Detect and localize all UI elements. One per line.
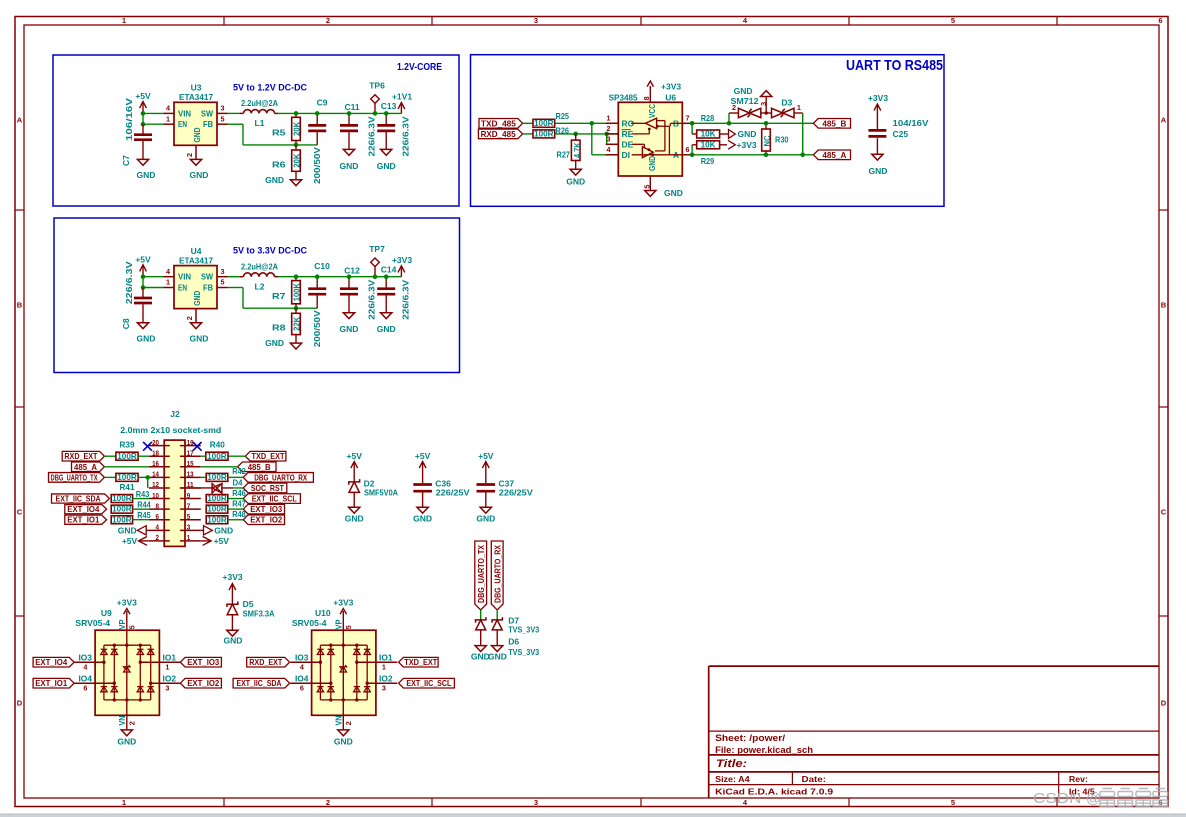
svg-text:1: 1: [797, 103, 801, 112]
svg-text:C10: C10: [314, 261, 330, 271]
svg-text:GND: GND: [224, 636, 243, 646]
U6 internal wiring: [657, 120, 665, 122]
U6 pin 6 A: [682, 154, 695, 156]
svg-text:3: 3: [759, 102, 768, 106]
svg-text:B: B: [17, 301, 23, 310]
svg-text:GND: GND: [566, 177, 585, 187]
svg-text:RXD_EXT: RXD_EXT: [249, 658, 282, 667]
wire: [228, 508, 243, 510]
svg-text:B: B: [1161, 301, 1167, 310]
svg-text:1: 1: [122, 16, 126, 25]
wire: [201, 476, 206, 478]
svg-text:VN: VN: [333, 716, 343, 726]
junction: [141, 122, 146, 127]
resistor R45: [111, 516, 132, 524]
svg-text:5: 5: [221, 114, 225, 123]
J2 pin 1: [180, 540, 201, 542]
global label EXT_IO1: [65, 515, 107, 524]
ground: [290, 343, 301, 349]
graphic box 1.2V-CORE region: [53, 55, 459, 206]
svg-text:EXT_IO3: EXT_IO3: [250, 505, 282, 514]
svg-text:Rev:: Rev:: [1069, 774, 1088, 784]
svg-text:100R: 100R: [534, 119, 554, 128]
svg-text:200/50V: 200/50V: [312, 310, 322, 347]
svg-text:D: D: [17, 699, 23, 708]
junction: [141, 274, 146, 279]
wire pin14 to pin12: [147, 477, 149, 488]
svg-text:12: 12: [152, 480, 159, 489]
svg-text:R6: R6: [272, 159, 286, 169]
svg-text:IO1: IO1: [379, 653, 393, 663]
svg-text:1: 1: [382, 662, 386, 671]
svg-text:2: 2: [344, 721, 353, 725]
J2 pin 11: [180, 487, 201, 489]
svg-text:GND: GND: [340, 161, 359, 171]
wire: [104, 466, 148, 468]
svg-text:10K: 10K: [701, 130, 716, 139]
svg-text:D4: D4: [233, 477, 243, 487]
svg-text:SRV05-4: SRV05-4: [292, 618, 327, 628]
junction: [384, 111, 389, 116]
global label SOC_RST: [243, 483, 287, 493]
ground: [349, 507, 360, 513]
svg-text:1: 1: [166, 278, 170, 287]
power +5V (D2): [353, 463, 355, 483]
svg-text:EXT_IO3: EXT_IO3: [187, 658, 219, 667]
svg-text:+3V3: +3V3: [661, 82, 681, 92]
svg-text:1: 1: [165, 662, 169, 671]
svg-text:GND: GND: [647, 156, 657, 171]
svg-text:106/16V: 106/16V: [124, 98, 134, 141]
power label +5V (pin 2): [139, 537, 148, 546]
U6 pin 7 B: [682, 122, 695, 124]
svg-text:5: 5: [344, 625, 353, 629]
resistor R30 NC: [765, 123, 767, 129]
svg-text:100R: 100R: [117, 452, 137, 461]
svg-text:EXT_IO1: EXT_IO1: [35, 679, 67, 688]
svg-text:6: 6: [83, 683, 87, 692]
wire: [228, 498, 243, 500]
wire: [104, 476, 116, 478]
J2 pin 20: [149, 445, 170, 447]
svg-text:GND: GND: [377, 161, 396, 171]
svg-text:R30: R30: [775, 135, 789, 145]
op-amp U6 SP3485 transceiver body: [618, 102, 682, 176]
test point TP7: [371, 258, 380, 267]
wire: [228, 519, 243, 521]
svg-text:@: @: [1086, 791, 1101, 807]
global label EXT_IO2 (U9): [180, 678, 221, 688]
svg-text:R5: R5: [272, 128, 286, 138]
svg-text:R7: R7: [272, 291, 286, 301]
ground: [290, 180, 301, 186]
svg-text:5V to 1.2V DC-DC: 5V to 1.2V DC-DC: [233, 82, 307, 92]
svg-text:100R: 100R: [112, 515, 132, 524]
global label DBG_UARTO_TX: [49, 473, 105, 483]
svg-text:18: 18: [152, 448, 159, 457]
svg-text:100R: 100R: [112, 494, 132, 503]
U3 pin 3 SW: [217, 112, 228, 114]
svg-text:4: 4: [166, 267, 170, 276]
global label GND (R28): [720, 133, 729, 135]
svg-text:2: 2: [127, 721, 136, 725]
svg-text:GND: GND: [192, 128, 202, 143]
J2 pin 17: [180, 455, 201, 457]
svg-text:J2: J2: [170, 409, 180, 419]
resistor R26: [533, 130, 555, 138]
U9 pin 4 IO3: [74, 661, 104, 663]
J2 pin 13: [180, 476, 201, 478]
svg-text:20: 20: [152, 438, 159, 447]
svg-text:+5V: +5V: [415, 451, 431, 461]
resistor R41: [116, 473, 138, 481]
svg-text:File: power.kicad_sch: File: power.kicad_sch: [715, 745, 813, 755]
global label EXT_IIC_SDA: [52, 494, 110, 503]
resistor R42: [206, 473, 228, 481]
resistor R29 branch: [691, 145, 693, 155]
svg-text:+5V: +5V: [135, 91, 151, 101]
svg-text:SMF3.3A: SMF3.3A: [243, 609, 275, 619]
svg-text:IO3: IO3: [78, 653, 92, 663]
power +3V3: [400, 267, 402, 276]
svg-text:GND: GND: [413, 514, 432, 524]
svg-text:SMF5V0A: SMF5V0A: [364, 488, 398, 498]
U10 internal rails: [320, 644, 367, 646]
svg-text:20K: 20K: [292, 153, 302, 168]
wire FB net: [228, 287, 244, 289]
svg-text:GND: GND: [340, 324, 359, 334]
svg-text:C: C: [1161, 508, 1167, 517]
capacitor C8: [142, 288, 144, 297]
ground: [381, 313, 392, 319]
U6 pin 5 GND: [649, 176, 651, 191]
diode D2 SMF5V0A: [349, 479, 360, 485]
wire: [201, 466, 238, 468]
svg-text:3: 3: [221, 104, 225, 113]
graphic box 3.3V region: [54, 218, 460, 373]
svg-text:C13: C13: [381, 101, 397, 111]
wire: [555, 133, 619, 135]
svg-text:16: 16: [152, 459, 159, 468]
svg-text:100R: 100R: [117, 473, 137, 482]
no-connect pin 19: [193, 442, 202, 451]
svg-text:6: 6: [1158, 16, 1162, 25]
junction: [141, 111, 146, 116]
svg-text:5: 5: [951, 798, 955, 807]
svg-text:100R: 100R: [207, 515, 227, 524]
global label EXT_IO4: [65, 505, 107, 514]
global label EXT_IIC_SCL: [243, 494, 300, 504]
svg-text:DBG_UARTO_TX: DBG_UARTO_TX: [477, 545, 486, 603]
svg-text:10K: 10K: [701, 140, 716, 149]
test point TP6: [371, 95, 380, 104]
svg-text:20K: 20K: [292, 121, 302, 136]
junction: [373, 274, 378, 279]
wire: [138, 476, 149, 478]
svg-text:ETA3417: ETA3417: [179, 92, 213, 102]
svg-text:GND: GND: [192, 291, 202, 306]
power +5V (U3 input): [142, 103, 144, 113]
ground: [137, 323, 148, 329]
power +3V3 (U10): [342, 611, 344, 630]
svg-text:U3: U3: [191, 83, 202, 93]
resistor R39: [116, 452, 138, 460]
diode D5 SMF3.3A: [227, 601, 238, 607]
wire: [228, 112, 241, 114]
ground: [343, 313, 354, 319]
junction: [294, 111, 299, 116]
wire: [278, 112, 401, 114]
J2 pin 19: [180, 445, 201, 447]
J2 pin 5: [180, 519, 201, 521]
svg-text:IO4: IO4: [295, 674, 309, 684]
J2 pin 16: [149, 466, 170, 468]
svg-text:EXT_IIC_SCL: EXT_IIC_SCL: [406, 679, 451, 688]
svg-text:8: 8: [642, 96, 651, 100]
svg-text:+3V3: +3V3: [392, 255, 412, 265]
wire: [143, 287, 164, 289]
junction: [141, 285, 146, 290]
J2 pin 14: [149, 476, 170, 478]
resistor R7: [295, 277, 297, 281]
U3 pin 1 EN: [164, 123, 175, 125]
ground: [570, 169, 581, 175]
svg-text:SOC_RST: SOC_RST: [251, 484, 284, 493]
U10 center zener: [340, 665, 346, 669]
svg-text:EN: EN: [178, 283, 187, 293]
svg-text:2.2uH@2A: 2.2uH@2A: [241, 98, 278, 108]
wire: [695, 122, 814, 124]
wire D3 to A: [802, 113, 804, 155]
svg-text:FB: FB: [203, 119, 213, 129]
svg-text:SRV05-4: SRV05-4: [75, 618, 110, 628]
svg-text:GND: GND: [190, 333, 209, 343]
svg-text:100R: 100R: [207, 452, 227, 461]
SM712 center pin 3 to GND: [761, 112, 772, 114]
svg-text:8: 8: [156, 501, 160, 510]
wire DI branch: [591, 123, 593, 155]
svg-text:GND: GND: [265, 338, 284, 348]
U4 pin 1 EN: [164, 287, 175, 289]
svg-text:IO3: IO3: [295, 653, 309, 663]
svg-text:Date:: Date:: [802, 774, 827, 784]
power +1V1: [400, 104, 402, 113]
diode D4 (DNP): [180, 487, 212, 489]
ground: [343, 149, 354, 155]
svg-text:R8: R8: [272, 323, 286, 333]
svg-text:RXD_EXT: RXD_EXT: [64, 452, 97, 461]
U9 internal junctions: [113, 644, 116, 647]
U10 pin 3 IO2: [367, 682, 397, 684]
power +5V (C36): [422, 463, 424, 483]
junction: [604, 132, 609, 137]
svg-text:IO4: IO4: [78, 674, 92, 684]
wire: [496, 610, 498, 620]
ground: [475, 646, 486, 652]
svg-text:1: 1: [607, 114, 611, 123]
svg-text:226/6.3V: 226/6.3V: [400, 279, 410, 319]
svg-text:4.7K: 4.7K: [572, 142, 582, 158]
svg-text:3: 3: [165, 683, 169, 692]
J2 pin 2: [149, 540, 170, 542]
junction: [690, 153, 695, 158]
ground: [190, 323, 201, 329]
global label 485_B (J2): [238, 462, 276, 472]
svg-text:ETA3417: ETA3417: [179, 255, 213, 265]
svg-text:+3V3: +3V3: [737, 140, 757, 150]
power +5V (U4 input): [142, 266, 144, 276]
wire: [523, 133, 533, 135]
svg-text:2: 2: [185, 153, 194, 157]
wire: [278, 276, 401, 278]
svg-text:R47: R47: [232, 498, 246, 508]
U10 pin 6 IO4: [290, 682, 331, 684]
svg-text:R25: R25: [556, 111, 570, 121]
svg-text:D: D: [1161, 699, 1167, 708]
svg-text:GND: GND: [137, 170, 156, 180]
svg-text:U4: U4: [191, 246, 202, 256]
svg-text:SP3485: SP3485: [609, 92, 638, 102]
global label DBG_UARTO_RX (vertical): [491, 541, 503, 610]
U9 pin 6 IO4: [74, 682, 115, 684]
svg-text:CSDN: CSDN: [1033, 791, 1082, 807]
svg-text:1.2V-CORE: 1.2V-CORE: [397, 61, 442, 73]
svg-text:5: 5: [127, 625, 136, 629]
op-amp U4 ETA3417 regulator body: [174, 266, 217, 309]
svg-text:C: C: [17, 508, 23, 517]
wire: [233, 487, 243, 489]
diode D7 TVS_3V3: [476, 617, 486, 623]
transistor U9 SRV05-4 body: [95, 630, 159, 715]
svg-text:3: 3: [534, 16, 538, 25]
title block frame: [709, 665, 1159, 667]
svg-text:7: 7: [187, 501, 191, 510]
svg-text:6: 6: [686, 145, 690, 154]
U10 internal diodes: [317, 648, 323, 650]
U6 pin 3 DE: [606, 143, 619, 145]
wire: [201, 455, 206, 457]
wire: [555, 122, 619, 124]
svg-text:4: 4: [166, 104, 170, 113]
svg-text:TXD_EXT: TXD_EXT: [252, 452, 285, 461]
svg-text:C12: C12: [344, 265, 360, 275]
wire: [228, 476, 243, 478]
wire: [143, 123, 164, 125]
frame column ticks top: [223, 17, 225, 26]
U3 pin 4 VIN: [164, 112, 175, 114]
svg-text:100R: 100R: [207, 473, 227, 482]
junction: [294, 143, 299, 148]
svg-text:2: 2: [185, 316, 194, 320]
U6 pin 4 DI: [606, 154, 619, 156]
capacitor C7: [142, 124, 144, 133]
svg-text:RXD_485: RXD_485: [481, 130, 516, 139]
power +5V (C37): [485, 463, 487, 483]
U6 pin 8 VCC with +3V3: [649, 86, 651, 102]
svg-text:3: 3: [607, 135, 611, 144]
power +3V3 (C25): [876, 106, 878, 130]
U9 internal rails: [104, 644, 151, 646]
global label RXD_485: [478, 129, 522, 139]
junction: [315, 111, 320, 116]
ground: [381, 149, 392, 155]
J2 pin 4: [149, 529, 170, 531]
svg-text:GND: GND: [471, 651, 490, 661]
svg-text:+1V1: +1V1: [392, 92, 412, 102]
svg-text:1: 1: [122, 798, 126, 807]
ground: [417, 507, 428, 513]
svg-text:200/50V: 200/50V: [312, 147, 322, 184]
svg-text:A: A: [17, 116, 23, 125]
global label GND (pin 3): [204, 526, 213, 535]
junction: [690, 121, 695, 126]
svg-text:+5V: +5V: [347, 451, 363, 461]
J2 pin 9: [180, 498, 201, 500]
svg-text:100R: 100R: [207, 505, 227, 514]
wire: [133, 508, 149, 510]
svg-text:EXT_IO4: EXT_IO4: [67, 505, 99, 514]
ground: [480, 507, 491, 513]
svg-text:2: 2: [326, 16, 330, 25]
svg-text:C25: C25: [893, 129, 909, 139]
junction: [347, 274, 352, 279]
svg-text:100R: 100R: [112, 505, 132, 514]
svg-text:100R: 100R: [207, 494, 227, 503]
resistor R43: [111, 495, 132, 503]
power +3V3 (U9): [126, 611, 128, 630]
svg-text:TVS_3V3: TVS_3V3: [508, 625, 539, 635]
svg-text:Size: A4: Size: A4: [715, 774, 750, 784]
U9 center zener: [124, 665, 130, 669]
svg-text:Sheet: /power/: Sheet: /power/: [715, 733, 786, 743]
watermark CSDN: [1033, 791, 1101, 807]
U9 pin 1 IO1: [140, 661, 181, 663]
svg-text:TP6: TP6: [369, 81, 385, 91]
svg-text:R46: R46: [232, 488, 246, 498]
svg-text:+5V: +5V: [122, 536, 138, 546]
junction: [573, 132, 578, 137]
capacitor C37 226/25V: [477, 483, 496, 486]
svg-text:UART TO RS485: UART TO RS485: [846, 57, 943, 74]
J2 pin 6: [149, 519, 170, 521]
svg-text:FB: FB: [203, 283, 213, 293]
ground: [492, 646, 503, 652]
svg-text:R39: R39: [120, 440, 135, 450]
svg-text:2: 2: [326, 798, 330, 807]
svg-text:GND: GND: [137, 333, 156, 343]
svg-text:R41: R41: [120, 482, 135, 492]
U6 internal driver triangle: [642, 147, 653, 158]
svg-text:R48: R48: [232, 509, 246, 519]
svg-text:U10: U10: [315, 608, 331, 618]
svg-text:VN: VN: [117, 716, 127, 726]
power label +5V (pin 1): [203, 537, 212, 546]
frame column ticks bottom: [223, 798, 225, 807]
svg-text:R42: R42: [232, 466, 246, 476]
power +3V3 (D5): [231, 585, 233, 604]
junction: [315, 274, 320, 279]
svg-text:226/6.3V: 226/6.3V: [124, 261, 134, 304]
wire: [104, 455, 116, 457]
svg-text:DI: DI: [622, 150, 631, 160]
svg-text:485_B: 485_B: [822, 119, 846, 128]
U4 pin 3 SW: [217, 276, 228, 278]
svg-text:C11: C11: [344, 102, 359, 112]
svg-text:A: A: [1161, 116, 1167, 125]
global label DBG_UARTO_RX: [243, 473, 313, 483]
svg-text:L1: L1: [255, 118, 265, 128]
U6 internal receiver triangle: [631, 122, 645, 124]
